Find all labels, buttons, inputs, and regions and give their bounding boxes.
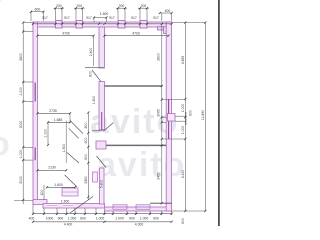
svg-text:2450: 2450 bbox=[157, 172, 161, 180]
svg-text:1.000: 1.000 bbox=[181, 104, 185, 113]
interior wall gray B bbox=[106, 144, 166, 146]
pilaster P3 bbox=[118, 21, 125, 29]
ticks top chain bbox=[32, 23, 34, 25]
svg-text:200: 200 bbox=[56, 4, 62, 8]
svg-text:3450: 3450 bbox=[84, 176, 88, 184]
window stub y117 bbox=[162, 116, 166, 118]
jamb box center bbox=[96, 141, 106, 149]
svg-text:200: 200 bbox=[141, 4, 147, 8]
dim connector top-right bbox=[172, 21, 206, 23]
dim chain 917 row bbox=[33, 23, 172, 25]
sheet border frame right bbox=[218, 0, 220, 226]
svg-text:917: 917 bbox=[42, 16, 48, 20]
svg-text:1.000: 1.000 bbox=[68, 216, 77, 220]
svg-text:900: 900 bbox=[58, 216, 64, 220]
interior wall gray A bbox=[105, 85, 163, 87]
svg-text:600: 600 bbox=[35, 8, 41, 12]
svg-text:600: 600 bbox=[181, 218, 185, 224]
window left W1 bbox=[34, 83, 36, 102]
window stub y122.5 bbox=[162, 121, 166, 123]
svg-text:4.855: 4.855 bbox=[181, 56, 185, 65]
svg-text:917: 917 bbox=[86, 16, 92, 20]
pilaster P4 bbox=[140, 21, 147, 29]
svg-text:4700: 4700 bbox=[62, 31, 70, 35]
dim col left x23 bbox=[22, 23, 24, 205]
svg-text:917: 917 bbox=[131, 16, 137, 20]
ticks right cols bbox=[161, 85, 163, 87]
door swing bottom bbox=[70, 197, 93, 214]
window bottom W4 bbox=[136, 205, 150, 209]
window stub y99.5 bbox=[162, 99, 186, 101]
dim chain interior x88 bbox=[87, 112, 89, 200]
dim line x66 corridor bbox=[65, 121, 67, 164]
dim connector bottom-right bbox=[172, 210, 206, 212]
svg-text:avito: avito bbox=[97, 146, 186, 184]
dim 200 p1 bbox=[54, 7, 65, 9]
window bottom W3 bbox=[113, 205, 127, 209]
sill right bbox=[158, 27, 169, 30]
dim 1600 bottom-left bbox=[47, 186, 75, 188]
svg-text:600: 600 bbox=[153, 216, 159, 220]
svg-text:400: 400 bbox=[29, 216, 35, 220]
dim 4700 right bbox=[105, 35, 169, 37]
wall bottom right span bbox=[105, 207, 172, 211]
pilaster P2 bbox=[76, 21, 83, 29]
svg-text:1.500: 1.500 bbox=[61, 199, 70, 203]
svg-text:1.500: 1.500 bbox=[100, 12, 109, 16]
dim 400 step bbox=[43, 185, 45, 200]
door swing stairs 4 bbox=[65, 175, 77, 187]
dimension lines bbox=[14, 8, 205, 222]
wall bottom left span bbox=[43, 204, 105, 209]
ticks bottom row B bbox=[32, 221, 34, 223]
svg-text:3800: 3800 bbox=[19, 53, 23, 61]
svg-text:1.000: 1.000 bbox=[96, 216, 105, 220]
svg-text:1.900: 1.900 bbox=[62, 144, 66, 153]
door swing center wall lower bbox=[92, 130, 104, 132]
svg-text:900: 900 bbox=[84, 154, 88, 160]
svg-text:2800: 2800 bbox=[157, 53, 161, 61]
fixture box bbox=[62, 188, 78, 196]
wall top bbox=[33, 22, 172, 27]
ticks left col bbox=[22, 21, 24, 23]
svg-text:800: 800 bbox=[88, 71, 92, 77]
dim 1500 center top bbox=[94, 17, 107, 19]
svg-text:200: 200 bbox=[76, 4, 82, 8]
dim 2735 interior bbox=[38, 112, 71, 114]
wall center upper bbox=[99, 27, 105, 68]
dim 600 top-left bbox=[31, 11, 44, 13]
svg-text:600: 600 bbox=[84, 138, 88, 144]
dim 400 top-right bbox=[160, 12, 172, 14]
shaft box right bbox=[167, 114, 175, 121]
dim 4700 left bbox=[38, 35, 94, 37]
door swing stairs 3 bbox=[67, 153, 79, 164]
wall right bbox=[166, 22, 171, 211]
svg-text:2130: 2130 bbox=[48, 166, 56, 170]
dimension texts bbox=[29, 4, 171, 227]
svg-text:11.890: 11.890 bbox=[201, 110, 205, 120]
ticks 2130 bbox=[36, 169, 38, 171]
door swing stairs 2 bbox=[69, 128, 79, 138]
svg-text:1.000: 1.000 bbox=[19, 150, 23, 159]
svg-text:400: 400 bbox=[165, 9, 171, 13]
svg-text:1.600: 1.600 bbox=[54, 183, 63, 187]
svg-text:1.685: 1.685 bbox=[54, 118, 63, 122]
svg-text:3000: 3000 bbox=[19, 176, 23, 184]
dim 2130 bbox=[38, 169, 67, 171]
svg-text:o: o bbox=[0, 125, 10, 163]
dim 200 p2 bbox=[74, 7, 85, 9]
dim 1685 interior bbox=[48, 121, 70, 123]
svg-text:3000: 3000 bbox=[19, 121, 23, 129]
ticks 600/200/400 bbox=[30, 11, 32, 13]
svg-text:400: 400 bbox=[40, 190, 44, 196]
svg-text:4.400: 4.400 bbox=[64, 223, 73, 226]
svg-text:2735: 2735 bbox=[49, 109, 57, 113]
door swing center wall upper bbox=[85, 67, 104, 69]
svg-text:1.000: 1.000 bbox=[19, 87, 23, 96]
svg-text:1000: 1000 bbox=[46, 216, 54, 220]
duct box bbox=[93, 172, 98, 182]
tick marks (45 deg slashes) bbox=[0, 0, 1, 1]
window left W2 bbox=[34, 148, 36, 161]
svg-text:1.000: 1.000 bbox=[115, 216, 124, 220]
svg-text:917: 917 bbox=[153, 16, 159, 20]
window stub y139 bbox=[162, 138, 186, 140]
svg-text:1.000: 1.000 bbox=[181, 126, 185, 135]
lintel line y203 bbox=[150, 202, 172, 204]
ticks interior bbox=[36, 112, 38, 114]
pilaster P1 bbox=[56, 21, 63, 29]
svg-text:4700: 4700 bbox=[132, 31, 140, 35]
dim row B bottom bbox=[33, 221, 172, 223]
svg-text:600: 600 bbox=[188, 110, 192, 116]
ticks bottom row A bbox=[32, 213, 34, 215]
dim col x185 bbox=[184, 23, 186, 212]
wall center lower bbox=[99, 82, 105, 130]
dim col x205 bbox=[204, 23, 206, 212]
wall bottom-left step bbox=[33, 200, 47, 205]
wall left bbox=[33, 22, 38, 204]
svg-text:917: 917 bbox=[109, 16, 115, 20]
svg-text:800: 800 bbox=[84, 123, 88, 129]
svg-text:917: 917 bbox=[64, 16, 70, 20]
svg-text:600: 600 bbox=[129, 216, 135, 220]
dim col interior x162 bbox=[161, 24, 163, 203]
ticks 4700 bbox=[36, 35, 38, 37]
svg-text:3065: 3065 bbox=[157, 109, 161, 117]
svg-text:4.300: 4.300 bbox=[135, 223, 144, 226]
door swing stairs 1 bbox=[70, 121, 83, 134]
svg-text:600: 600 bbox=[80, 216, 86, 220]
window right W5 bbox=[168, 99, 170, 139]
svg-text:2.400: 2.400 bbox=[89, 48, 93, 57]
svg-text:4.410: 4.410 bbox=[181, 170, 185, 179]
svg-text:1.800: 1.800 bbox=[92, 96, 96, 105]
partition center lower bbox=[100, 168, 105, 204]
svg-text:1.000: 1.000 bbox=[140, 216, 149, 220]
dim 200 p3 bbox=[116, 7, 127, 9]
door opening D2 bottom bbox=[63, 204, 73, 207]
dim row A bottom bbox=[33, 213, 172, 215]
svg-text:200: 200 bbox=[119, 4, 125, 8]
shaft arrows bbox=[175, 115, 186, 117]
door opening D1 bottom bbox=[47, 204, 58, 207]
dim 200 p4 bbox=[138, 7, 149, 9]
door swing partition bbox=[97, 156, 107, 168]
svg-text:5.800: 5.800 bbox=[100, 180, 104, 189]
svg-text:1.100: 1.100 bbox=[44, 129, 48, 138]
